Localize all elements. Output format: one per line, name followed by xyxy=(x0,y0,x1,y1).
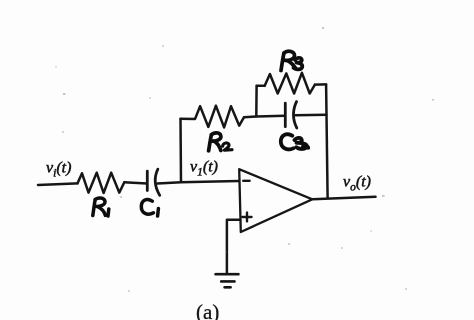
label R2 xyxy=(209,133,232,151)
wire xyxy=(315,83,326,86)
capacitor C3 xyxy=(285,102,297,128)
resistor R3 xyxy=(265,73,315,94)
resistor R2 xyxy=(195,106,244,128)
svg-text:(a): (a) xyxy=(196,300,219,320)
wire xyxy=(38,183,78,185)
ground xyxy=(216,274,239,287)
wire xyxy=(244,116,285,117)
wire xyxy=(257,85,265,88)
speckle noise xyxy=(55,27,434,292)
wire xyxy=(158,181,239,184)
op-amp U1 xyxy=(239,169,312,232)
resistor R1 xyxy=(78,173,125,193)
wire xyxy=(181,118,196,121)
label R1 xyxy=(93,198,109,216)
wire xyxy=(227,220,241,274)
label C3 xyxy=(281,134,308,149)
wire xyxy=(296,114,327,117)
wire xyxy=(326,84,328,197)
wire xyxy=(312,197,375,200)
label R3 xyxy=(281,51,302,70)
wire xyxy=(179,119,182,183)
wire xyxy=(124,182,147,183)
wire xyxy=(255,86,258,117)
capacitor C1 xyxy=(147,169,159,195)
label C1 xyxy=(141,200,158,216)
